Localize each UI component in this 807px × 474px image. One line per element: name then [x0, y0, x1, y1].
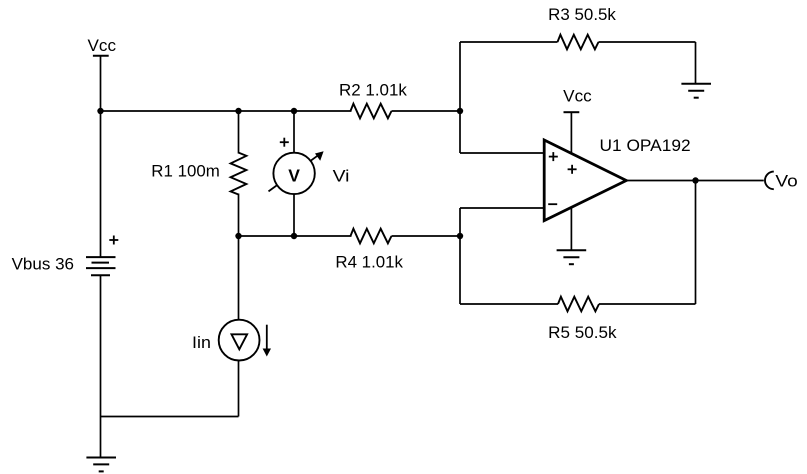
node H (output junction): [692, 177, 698, 183]
voltmeter VM1 needle: [269, 151, 324, 191]
op-amp power pin marker: [568, 165, 577, 174]
battery plus marker: [109, 236, 118, 245]
svg-text:R4 1.01k: R4 1.01k: [335, 253, 403, 271]
wire R3 right segment: [599, 41, 696, 43]
label R2 1.01k: [339, 82, 408, 100]
node G (R4 right junction): [457, 233, 463, 239]
resistor R5: [558, 297, 599, 312]
terminal Vo: [765, 172, 774, 190]
node D (R2 right junction): [457, 108, 463, 114]
wire to inverting input: [460, 208, 544, 236]
wire battery to bottom rail: [100, 275, 102, 457]
wire up to R3 loop: [459, 42, 461, 111]
label R1 100m: [151, 163, 220, 181]
node E (R1 bottom): [235, 233, 241, 239]
svg-text:Vcc: Vcc: [563, 88, 592, 106]
ground (op-amp): [557, 250, 587, 264]
wire Iin top lead: [238, 236, 240, 320]
label Vbus 36: [12, 255, 74, 273]
svg-text:U1 OPA192: U1 OPA192: [600, 137, 691, 155]
voltmeter plus marker: [280, 138, 289, 147]
wire left rail to battery: [100, 111, 102, 258]
wire R5 up to output: [695, 181, 697, 305]
wire R1 bottom lead: [238, 194, 240, 237]
op-amp inverting pin marker: [548, 203, 557, 205]
svg-text:Vcc: Vcc: [88, 37, 117, 55]
wire voltmeter bottom lead: [293, 194, 295, 236]
svg-text:R3 50.5k: R3 50.5k: [548, 6, 616, 24]
voltmeter V glyph: [288, 165, 300, 185]
wire node2 horizontal: [239, 235, 352, 237]
wire output: [627, 180, 764, 182]
voltmeter VM1 body: [273, 153, 314, 194]
svg-text:V: V: [288, 165, 300, 185]
wire to noninverting input: [460, 111, 544, 153]
svg-text:Vbus 36: Vbus 36: [12, 255, 74, 273]
label Iin: [192, 334, 211, 352]
node C (voltmeter top): [291, 108, 297, 114]
svg-text:R2 1.01k: R2 1.01k: [339, 82, 408, 100]
op-amp noninverting pin marker: [549, 152, 558, 161]
current source Iin body: [219, 320, 260, 361]
current source arrow: [263, 325, 271, 357]
wire R1 top lead: [238, 111, 240, 154]
wire R5 left segment: [460, 303, 558, 305]
wire down to ground (top right): [695, 42, 697, 84]
wire op-amp negative supply: [570, 208, 572, 250]
label Vo: [775, 173, 797, 191]
svg-text:R1 100m: R1 100m: [151, 163, 220, 181]
label R4 1.01k: [335, 253, 403, 271]
label Vcc (top left): [88, 37, 117, 55]
wire main horizontal top: [101, 110, 352, 112]
wire R2 to input node: [392, 110, 461, 112]
wire voltmeter top lead: [293, 111, 295, 155]
node B (R1 top): [235, 108, 241, 114]
ground (top right): [681, 84, 711, 98]
label Vi: [333, 168, 350, 186]
resistor R4: [351, 229, 392, 244]
resistor R2: [351, 104, 392, 119]
wire R3 left segment: [460, 41, 558, 43]
svg-text:Iin: Iin: [192, 334, 211, 352]
wire bottom horizontal: [101, 416, 239, 418]
wire down to R5 loop: [459, 236, 461, 304]
resistor R3: [558, 35, 599, 50]
label Vcc (op-amp): [563, 88, 592, 106]
node F (voltmeter bottom): [291, 233, 297, 239]
svg-text:Vo: Vo: [775, 173, 797, 191]
battery V1 Vbus 36: [86, 257, 116, 275]
power symbol Vcc (top left): [93, 56, 109, 111]
node A (Vcc rail / main wire junction): [97, 108, 103, 114]
label U1 OPA192: [600, 137, 691, 155]
label R3 50.5k: [548, 6, 616, 24]
label R5 50.5k: [548, 324, 617, 342]
wire R4 to inverting node: [392, 235, 461, 237]
power symbol Vcc (op-amp): [564, 112, 580, 153]
wire Iin bottom lead: [238, 361, 240, 417]
svg-text:R5 50.5k: R5 50.5k: [548, 324, 617, 342]
op-amp U1 OPA192 triangle: [544, 140, 626, 221]
svg-text:Vi: Vi: [333, 168, 350, 186]
wire R5 right segment: [599, 303, 696, 305]
resistor R1: [231, 153, 247, 195]
ground (bottom left): [86, 458, 116, 472]
